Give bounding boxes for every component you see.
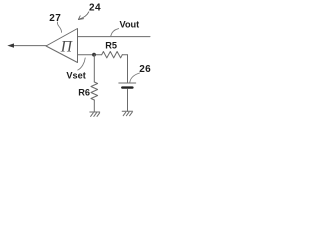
svg-text:R6: R6 — [78, 88, 90, 98]
resistor R5 — [102, 52, 123, 58]
ground (left, under R6) — [90, 112, 100, 116]
battery cell 26 bottom plate — [122, 86, 132, 88]
wire bottom input — [78, 54, 102, 56]
node junction dot — [92, 53, 96, 57]
svg-text:Vout: Vout — [120, 19, 140, 29]
wire R5 to corner — [122, 54, 127, 56]
wire node to R6 — [93, 55, 95, 82]
ground (right, under battery) — [122, 111, 132, 115]
wire down to battery — [127, 55, 129, 83]
battery cell 26 top plate — [119, 82, 136, 84]
resistor R6 — [91, 82, 98, 100]
svg-text:27: 27 — [49, 13, 61, 24]
svg-text:24: 24 — [89, 2, 101, 13]
wire R6 to ground — [93, 100, 95, 112]
svg-text:Vset: Vset — [66, 71, 85, 81]
leader for Vset — [78, 58, 85, 70]
leader for 27 — [57, 22, 61, 32]
wire output (left, with arrowhead) — [7, 43, 46, 47]
svg-text:Π: Π — [60, 39, 73, 56]
leader for Vout — [111, 29, 119, 36]
wire top input (Vout net) — [78, 36, 151, 38]
op-amp U (comparator 27) — [46, 29, 78, 63]
svg-text:26: 26 — [139, 64, 151, 75]
arrow leader for 24 — [78, 12, 88, 20]
wire battery to ground — [127, 89, 129, 112]
svg-text:R5: R5 — [105, 40, 117, 50]
leader for 26 — [130, 73, 140, 82]
